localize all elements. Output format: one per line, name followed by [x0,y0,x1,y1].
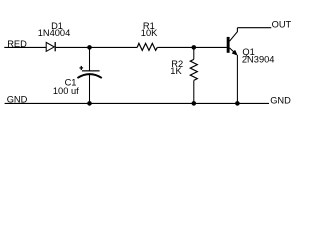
svg-text:2N3904: 2N3904 [242,55,275,65]
wire R2 down to ground rail [193,80,195,103]
resistor R1 [137,43,157,50]
svg-text:1K: 1K [170,66,182,76]
wire diode cathode to node A [56,46,137,48]
wire node A down to capacitor C1 [89,47,91,70]
node R2-ground junction dot [192,101,197,106]
svg-text:OUT: OUT [272,20,292,30]
wire node B down to resistor R2 [193,47,195,59]
svg-text:GND: GND [270,95,291,105]
svg-text:GND: GND [7,95,28,105]
wire capacitor C1 down to ground rail [89,74,91,103]
wire emitter down to ground rail [236,55,238,103]
ground rail wire [5,102,269,104]
wire R1 to node B [157,46,227,48]
wire collector to OUT [237,27,271,29]
capacitor C1 (polarized) [77,66,101,78]
svg-text:1N4004: 1N4004 [38,28,71,38]
resistor R2 [190,59,197,80]
transistor Q1 [227,28,238,56]
node emitter-ground junction dot [235,101,240,106]
wire RED input to diode anode [4,46,46,48]
node capacitor-ground junction dot [87,101,92,106]
svg-text:10K: 10K [141,28,158,38]
svg-text:100 uf: 100 uf [53,86,79,96]
diode D1 [46,42,55,51]
node B junction dot [192,45,197,50]
node A junction dot [87,45,92,50]
